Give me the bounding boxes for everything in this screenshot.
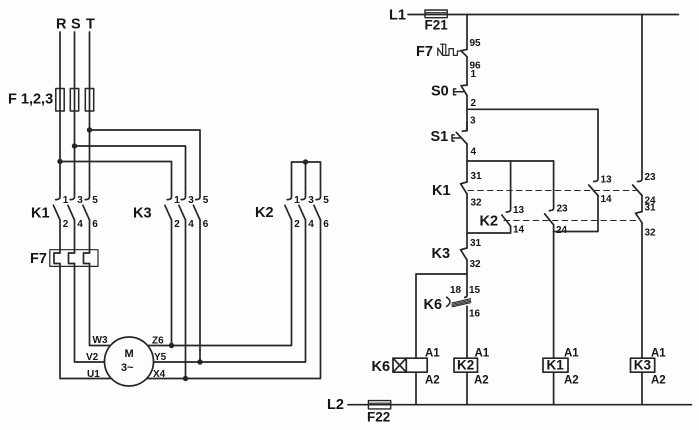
node Z6 K3 junction	[169, 343, 174, 348]
svg-text:3: 3	[188, 195, 194, 206]
wire K2 aux14 return	[467, 226, 511, 233]
timer contact K6 delay arc	[447, 297, 450, 306]
svg-text:A2: A2	[564, 375, 579, 387]
wire K3NC to K6 contact	[466, 260, 468, 293]
pushbutton S0 NC contact	[454, 85, 467, 95]
wire phase R upper	[59, 32, 61, 188]
wire T branch to K3 pole 5	[90, 130, 201, 188]
svg-text:14: 14	[601, 194, 613, 205]
svg-text:K6: K6	[372, 359, 391, 375]
node S branch	[72, 143, 77, 148]
svg-text:3: 3	[470, 116, 476, 127]
mech link K1 dashed	[468, 190, 637, 192]
svg-text:2: 2	[294, 219, 300, 230]
wire K2 star bridge	[292, 162, 321, 188]
svg-text:31: 31	[645, 203, 657, 214]
wire 96 to S0	[466, 57, 468, 85]
svg-text:F22: F22	[367, 410, 390, 425]
svg-text:4: 4	[471, 147, 477, 158]
overload F7 box	[50, 250, 98, 267]
contactor K2 pole 3	[314, 188, 329, 230]
svg-text:23: 23	[645, 172, 657, 183]
svg-text:F7: F7	[416, 44, 433, 60]
wire K3 pole2 to X4	[185, 220, 187, 379]
wire K2 star bridge centre	[305, 162, 307, 188]
fuse F22	[368, 401, 390, 409]
contactor K1 pole 1	[53, 188, 68, 230]
wire X4 to K2 pole3	[148, 220, 321, 379]
contactor K3 pole 2	[179, 188, 194, 230]
svg-text:K6: K6	[424, 297, 443, 313]
svg-text:4: 4	[188, 219, 194, 230]
svg-text:4: 4	[77, 219, 83, 230]
wire K1 pole1 to F7	[59, 220, 61, 253]
svg-text:V2: V2	[86, 352, 99, 363]
svg-text:K2: K2	[480, 214, 499, 230]
svg-text:U1: U1	[87, 369, 100, 380]
pushbutton S1 NO contact	[452, 122, 467, 144]
fuse F2	[70, 89, 78, 112]
wire R branch to K3 pole 1	[60, 162, 172, 189]
svg-text:5: 5	[92, 195, 98, 206]
svg-text:31: 31	[470, 238, 482, 249]
svg-text:5: 5	[323, 195, 329, 206]
svg-text:2: 2	[174, 219, 180, 230]
fuse F1	[56, 89, 64, 112]
svg-text:K3: K3	[133, 206, 152, 222]
node Y5 K3 junction	[197, 359, 202, 364]
svg-text:L1: L1	[389, 8, 406, 24]
contact K2 aux 23-24	[545, 201, 568, 236]
contact K2 aux 31-32 right	[636, 203, 657, 239]
contact K1 aux 13-14	[589, 172, 612, 205]
wire F7 to motor V2	[75, 264, 105, 363]
contactor K1 pole 3	[83, 188, 98, 230]
svg-text:2: 2	[63, 219, 69, 230]
wire phase T upper	[89, 32, 91, 188]
wire F7 to motor U1	[60, 264, 111, 379]
wire K1 aux14 link	[554, 196, 598, 232]
svg-text:1: 1	[471, 69, 477, 80]
svg-text:F 1,2,3: F 1,2,3	[8, 92, 53, 108]
contact K3 NC	[461, 248, 468, 260]
svg-text:3: 3	[308, 195, 314, 206]
svg-text:A2: A2	[651, 375, 666, 387]
wire node4 corner to K2 aux 23	[553, 161, 555, 201]
svg-text:A1: A1	[651, 348, 666, 360]
contactor K1 pole 2	[68, 188, 83, 230]
svg-text:1: 1	[63, 195, 69, 206]
svg-text:2: 2	[471, 98, 477, 109]
svg-text:K1: K1	[432, 183, 451, 199]
wire Y5 to K2 pole2	[154, 220, 306, 362]
node R branch	[57, 159, 62, 164]
node T branch	[87, 127, 92, 132]
contactor K3 pole 3	[193, 188, 208, 230]
svg-text:1: 1	[174, 195, 180, 206]
svg-text:16: 16	[469, 309, 481, 320]
fuse F21	[425, 10, 447, 18]
coil K3 box	[631, 358, 655, 373]
svg-text:A1: A1	[475, 348, 490, 360]
contactor K2 pole 1	[285, 188, 300, 230]
wire K2 coil to L2	[466, 372, 468, 405]
coil K6 timer box	[393, 358, 427, 372]
svg-text:13: 13	[513, 205, 525, 216]
svg-text:1: 1	[294, 195, 300, 206]
wire S1 to K1 NC	[466, 144, 468, 182]
svg-text:6: 6	[323, 219, 329, 230]
svg-text:L2: L2	[327, 397, 344, 413]
svg-text:24: 24	[556, 225, 568, 236]
wire node4 rail	[467, 160, 554, 162]
wire S0 to S1 with node2	[466, 96, 468, 132]
wire K2 aux24 to K1 coil	[553, 225, 555, 358]
svg-text:32: 32	[471, 198, 483, 209]
wire F7 to motor W3	[90, 264, 111, 346]
wire L1 rail	[408, 14, 679, 16]
svg-text:K3: K3	[634, 358, 652, 373]
motor M circle	[105, 337, 154, 386]
svg-text:K2: K2	[255, 205, 274, 221]
wire branch to K6 coil	[416, 274, 467, 358]
mech link K2 dashed	[504, 220, 638, 222]
coil K1 box	[543, 358, 568, 373]
svg-text:K1: K1	[547, 358, 565, 373]
svg-text:6: 6	[203, 219, 209, 230]
svg-text:T: T	[86, 17, 95, 33]
overload F7 element 3	[84, 253, 90, 264]
wire phase S upper	[74, 32, 76, 188]
svg-text:15: 15	[469, 285, 481, 296]
coil K2 box	[454, 358, 478, 373]
svg-text:6: 6	[92, 219, 98, 230]
svg-text:K3: K3	[432, 246, 451, 262]
overload contact F7 NC	[461, 49, 467, 56]
wire Z6 to K2 pole1	[148, 220, 292, 346]
wire K1 pole2 to F7	[74, 220, 76, 253]
wire S branch to K3 pole 3	[75, 146, 186, 188]
timer contact K6	[452, 292, 471, 307]
svg-text:A1: A1	[564, 348, 579, 360]
wire K2aux32 to K3 coil	[641, 223, 643, 358]
contactor K2 pole 2	[299, 188, 314, 230]
svg-text:3: 3	[77, 195, 83, 206]
wire K1NC to K3NC	[466, 194, 468, 248]
contact K1 aux 23-24 right	[633, 172, 656, 207]
svg-text:3~: 3~	[121, 362, 134, 374]
svg-text:S1: S1	[431, 129, 449, 145]
svg-text:S: S	[71, 17, 81, 33]
svg-text:W3: W3	[93, 335, 108, 346]
svg-text:A2: A2	[425, 375, 440, 387]
svg-text:A2: A2	[474, 375, 489, 387]
wire L2 rail	[348, 404, 692, 406]
wire K3 pole1 to Z6	[171, 220, 173, 346]
svg-text:18: 18	[450, 285, 462, 296]
wire K6 coil to L2	[415, 372, 417, 405]
svg-text:31: 31	[471, 171, 483, 182]
svg-text:M: M	[125, 348, 134, 360]
svg-text:F7: F7	[30, 251, 47, 267]
svg-text:23: 23	[557, 204, 569, 215]
node X4 K3 junction	[183, 376, 188, 381]
fuse F3	[85, 89, 93, 112]
wire main drop from L1	[466, 15, 468, 50]
wire between right contacts	[641, 196, 643, 212]
svg-text:14: 14	[513, 225, 525, 236]
contactor K3 pole 1	[165, 188, 180, 230]
overload F7 element 1	[54, 253, 60, 264]
svg-text:95: 95	[470, 38, 482, 49]
contact K2 aux 13-14	[502, 161, 525, 236]
svg-text:S0: S0	[431, 84, 449, 100]
svg-text:32: 32	[470, 259, 482, 270]
overload contact F7 thermal element	[438, 44, 461, 55]
wire K6 contact to K2 coil	[466, 306, 468, 358]
svg-text:K1: K1	[31, 206, 50, 222]
contact K1 NC	[461, 182, 468, 194]
svg-text:5: 5	[203, 195, 209, 206]
node K2 star point	[303, 159, 308, 164]
svg-text:13: 13	[601, 175, 613, 186]
svg-text:F21: F21	[425, 18, 449, 33]
wire node2 branch to K1 aux 13	[467, 109, 598, 172]
svg-text:4: 4	[308, 219, 314, 230]
wire right column from L1	[641, 15, 643, 173]
wire K3 coil to L2	[641, 372, 643, 405]
svg-text:K2: K2	[457, 358, 474, 373]
overload F7 element 2	[69, 253, 75, 264]
wire K3 pole3 to Y5	[199, 220, 201, 362]
wire K1 pole3 to F7	[89, 220, 91, 253]
svg-text:32: 32	[645, 228, 657, 239]
svg-text:R: R	[56, 17, 67, 33]
wire K1 coil to L2	[553, 372, 555, 405]
svg-text:A1: A1	[425, 348, 440, 360]
